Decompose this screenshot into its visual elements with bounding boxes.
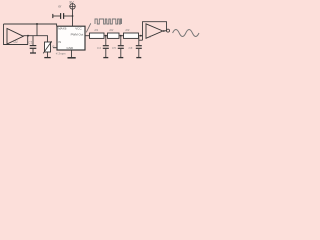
svg-text:R2: R2 (110, 28, 114, 32)
node (27, 35, 29, 37)
svg-text:C6: C6 (129, 46, 133, 50)
resistor R5 (108, 33, 120, 38)
pin stub left (53, 47, 57, 49)
op-amp A2 (146, 24, 163, 39)
node (72, 15, 74, 17)
svg-text:GND: GND (67, 46, 75, 50)
wire (139, 35, 143, 37)
wire output (163, 30, 166, 32)
op-amp A1 (7, 29, 23, 45)
ground C1 (30, 52, 36, 54)
wire decoupling branch (64, 15, 73, 17)
svg-text:MAX6: MAX6 (58, 26, 67, 30)
ground C5 (118, 57, 123, 59)
node (120, 35, 122, 37)
svg-text:4.3mps: 4.3mps (56, 52, 66, 56)
wire (120, 49, 122, 57)
P1 arrow (43, 42, 51, 54)
terminal tick (52, 14, 54, 18)
wire C5 (120, 36, 122, 46)
svg-text:2: 2 (149, 34, 152, 38)
wire (138, 49, 140, 57)
potentiometer P1 (45, 42, 51, 52)
wire PWM out (85, 35, 90, 37)
ground C4 (103, 57, 108, 59)
node (140, 35, 142, 37)
svg-text:IN: IN (58, 40, 61, 44)
svg-text:9V: 9V (69, 0, 74, 4)
wire VCC rail (4, 24, 57, 26)
wire rail drop (36, 24, 38, 36)
wire (119, 35, 124, 37)
wire C4 (105, 36, 107, 46)
wire (104, 35, 108, 37)
wire C6 (138, 36, 140, 46)
wire (53, 15, 60, 17)
IC1 (57, 26, 85, 50)
module loop A1 (4, 24, 28, 45)
capacitor C1 (30, 45, 37, 47)
PWM waveform (95, 19, 122, 24)
background (0, 0, 200, 62)
node on rail (36, 23, 38, 25)
wire C1 (32, 36, 34, 45)
svg-text:R3: R3 (126, 28, 130, 32)
wire (105, 49, 107, 57)
ground tick amp2 (139, 39, 143, 41)
svg-text:C4: C4 (97, 46, 101, 50)
wire pot bottom (47, 52, 49, 57)
resistor R4 (90, 33, 105, 38)
svg-text:G1: G1 (14, 40, 18, 44)
resistor R6 (124, 33, 139, 38)
capacitor C4 (103, 45, 109, 47)
amp2 box (143, 22, 167, 41)
svg-text:C1: C1 (28, 41, 32, 45)
svg-text:VCC: VCC (75, 26, 82, 30)
svg-text:C5: C5 (112, 46, 116, 50)
ground C6 (136, 57, 141, 59)
node output (163, 30, 165, 32)
wire supply (72, 9, 74, 26)
sine wave (173, 30, 199, 37)
capacitor C5 (118, 45, 124, 47)
ground IC1 (68, 57, 76, 59)
wire (32, 49, 34, 53)
node (105, 35, 107, 37)
capacitor C2 (63, 13, 65, 19)
wire A1 output (23, 36, 47, 42)
leader line (86, 23, 91, 32)
wire GND pin (71, 50, 73, 57)
capacitor C6 (136, 45, 142, 47)
output terminal (167, 29, 170, 32)
ground P1 (44, 57, 50, 59)
svg-text:R1: R1 (95, 28, 99, 32)
supply terminal (70, 4, 75, 9)
svg-text:PWM Out: PWM Out (71, 33, 84, 37)
